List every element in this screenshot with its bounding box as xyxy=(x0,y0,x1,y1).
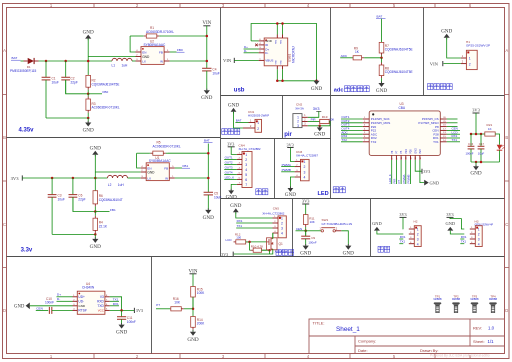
connector H1 GP25-2S2WV-2P xyxy=(461,40,490,70)
svg-text:D: D xyxy=(3,308,6,313)
svg-text:XH-4A_CT22862: XH-4A_CT22862 xyxy=(262,212,284,216)
svg-text:3V3: 3V3 xyxy=(446,212,453,217)
svg-text:HX25003-2WKP: HX25003-2WKP xyxy=(248,113,269,117)
ground GND (below C4) xyxy=(201,89,212,102)
ground GND (usb) xyxy=(311,79,322,92)
ground GND (below C11) xyxy=(116,323,127,336)
svg-text:M2BBB: M2BBB xyxy=(433,298,442,301)
svg-text:PIR: PIR xyxy=(311,118,317,122)
wires U3 bottom pins with labels xyxy=(388,160,411,184)
svg-text:TITLE:: TITLE: xyxy=(313,321,325,326)
net label FB1 (U1 FB pin) xyxy=(175,164,190,168)
svg-text:OUT3: OUT3 xyxy=(225,166,233,170)
svg-text:10uF: 10uF xyxy=(52,80,59,84)
svg-text:LX: LX xyxy=(142,59,146,63)
power flag 3V3 (serial lcd) xyxy=(221,250,269,257)
ground GND (indicator) xyxy=(470,165,481,177)
capacitor C5 10uF xyxy=(204,192,222,210)
resistor R6 CQ03WAJ6104T5E xyxy=(93,191,123,212)
svg-text:GND: GND xyxy=(116,330,127,336)
capacitor C4 10uF xyxy=(202,68,220,91)
capacitor C16 100nF (indicator) xyxy=(466,134,475,162)
resistor R2 CQ03WAJ6104T5E xyxy=(86,75,119,93)
svg-text:LED: LED xyxy=(318,191,329,197)
svg-text:RX1: RX1 xyxy=(400,235,406,239)
resistor R8 CQ03WAJ6104T5E xyxy=(379,58,412,83)
svg-text:2: 2 xyxy=(303,165,305,169)
svg-text:C16: C16 xyxy=(468,142,474,146)
svg-text:CQ03WAJ6104T5E: CQ03WAJ6104T5E xyxy=(92,82,120,86)
svg-text:1: 1 xyxy=(478,228,480,232)
svg-text:BAT: BAT xyxy=(236,119,242,123)
svg-text:TX1: TX1 xyxy=(237,224,243,228)
svg-text:GND: GND xyxy=(142,55,150,59)
svg-text:TX2: TX2 xyxy=(371,140,377,144)
svg-text:3: 3 xyxy=(281,227,283,231)
svg-text:LED_K: LED_K xyxy=(225,176,235,180)
svg-text:GT-TC029B-H025-L1N: GT-TC029B-H025-L1N xyxy=(322,222,353,226)
svg-text:D+: D+ xyxy=(57,293,61,297)
svg-text:RX1: RX1 xyxy=(461,235,467,239)
net label FB0 (U2 FB pin) xyxy=(170,48,185,52)
svg-text:3: 3 xyxy=(478,238,480,242)
svg-text:A: A xyxy=(505,48,508,53)
title block xyxy=(309,319,505,358)
svg-text:VCC: VCC xyxy=(98,309,104,313)
svg-text:10uF: 10uF xyxy=(478,151,485,155)
wire 3V3 rail xyxy=(22,177,107,180)
svg-text:V3: V3 xyxy=(100,295,104,299)
svg-text:TX1: TX1 xyxy=(433,140,439,144)
svg-text:4: 4 xyxy=(245,168,247,172)
svg-text:D-: D- xyxy=(265,51,268,55)
svg-text:CN5: CN5 xyxy=(273,207,279,211)
svg-text:3: 3 xyxy=(303,170,305,174)
svg-text:Sheet_1: Sheet_1 xyxy=(336,326,360,333)
inductor L1 1uH xyxy=(112,58,136,67)
svg-text:1/1: 1/1 xyxy=(488,339,495,344)
svg-text:GND: GND xyxy=(83,128,94,134)
svg-text:P7: P7 xyxy=(397,180,401,184)
svg-text:IN: IN xyxy=(165,177,168,181)
wire U4 V3 to VCC xyxy=(110,297,122,311)
svg-text:1.0: 1.0 xyxy=(488,326,495,331)
net label BAT (4.35v input) xyxy=(11,56,21,60)
switch SW1 GT-TC029B-H025-L1N xyxy=(306,218,352,245)
svg-text:BAT: BAT xyxy=(12,56,18,60)
node FB0 (R2/R3 junction) xyxy=(87,90,109,95)
svg-text:GND: GND xyxy=(203,215,214,221)
svg-text:RXD: RXD xyxy=(97,300,104,304)
svg-text:22pF: 22pF xyxy=(78,198,85,202)
svg-text:D1: D1 xyxy=(27,65,31,69)
svg-text:TX1: TX1 xyxy=(452,138,458,142)
ground GND (H2) xyxy=(372,221,403,234)
svg-text:22pF: 22pF xyxy=(71,80,78,84)
svg-text:GND: GND xyxy=(147,171,155,175)
svg-text:L1: L1 xyxy=(112,64,116,68)
power flag 3V3 (LED block) xyxy=(287,142,295,161)
svg-text:GND: GND xyxy=(228,103,239,109)
mcu U3 CBU xyxy=(363,102,447,160)
svg-text:5: 5 xyxy=(245,173,247,177)
svg-text:XH-7A_CT22882: XH-7A_CT22882 xyxy=(239,147,261,151)
svg-text:M2BBB: M2BBB xyxy=(489,298,498,301)
svg-text:2: 2 xyxy=(417,233,419,237)
ground GND (serial lcd) xyxy=(230,203,272,218)
svg-text:GND: GND xyxy=(78,304,86,308)
svg-text:GND: GND xyxy=(414,148,417,154)
svg-text:3V3: 3V3 xyxy=(136,308,143,313)
ground GND (bottom of 3.3v block) xyxy=(90,237,101,250)
net label TX1 (H3) xyxy=(460,240,466,244)
block label lidianchi xyxy=(222,129,240,135)
svg-text:6: 6 xyxy=(245,178,247,182)
resistor R15 100K xyxy=(191,287,205,309)
net label CEN (U4 RTS#) xyxy=(36,306,48,310)
node FB1 (R6/R4 junction) xyxy=(94,208,116,213)
svg-text:D: D xyxy=(505,308,508,313)
ground GND (adc) xyxy=(376,81,387,94)
svg-text:OUT4: OUT4 xyxy=(225,171,233,175)
ground GND (below R14) xyxy=(187,330,198,343)
ground GND (top of 3.3v block) xyxy=(90,146,101,191)
svg-text:M2BBB: M2BBB xyxy=(452,298,461,301)
net label BAT (3.3v input rail) xyxy=(204,139,213,193)
wire bottom rail to GND (4.35v) xyxy=(46,117,89,123)
svg-text:D-: D- xyxy=(57,297,60,301)
wire pir pin3 to GND xyxy=(308,125,330,128)
op-amp U2 SY8089A1AAC (buck regulator) xyxy=(136,40,170,65)
svg-text:M2BBB: M2BBB xyxy=(470,298,479,301)
svg-text:Sheet:: Sheet: xyxy=(473,339,485,344)
mounting hole TP2 xyxy=(452,294,461,312)
wire indicator bottom rail xyxy=(471,161,500,167)
chip USB1 MICROXNJ connector xyxy=(259,35,296,70)
svg-text:VIN: VIN xyxy=(202,21,211,26)
svg-text:4: 4 xyxy=(478,242,480,246)
svg-text:AC0603DR-0710KL: AC0603DR-0710KL xyxy=(92,106,120,110)
power flag 3V3 (button) xyxy=(302,199,310,215)
svg-text:B: B xyxy=(505,135,508,140)
svg-text:7: 7 xyxy=(245,183,247,187)
svg-text:1: 1 xyxy=(281,217,283,221)
svg-text:3V3: 3V3 xyxy=(227,142,234,147)
net label BAT (battery) xyxy=(235,119,248,123)
svg-text:PWMA: PWMA xyxy=(402,174,406,183)
net label TX1 (H2) xyxy=(399,240,405,244)
svg-text:PMEG3050EP,115: PMEG3050EP,115 xyxy=(10,69,37,73)
svg-text:FB1: FB1 xyxy=(110,208,116,212)
resistor R7 CQ03WAJ6104T5E xyxy=(379,42,412,57)
ground GND (H3) xyxy=(446,221,465,234)
net label ADC + resistor R9 1K xyxy=(340,46,383,60)
svg-text:XH-3A: XH-3A xyxy=(295,106,304,110)
ground GND (pir) xyxy=(314,126,325,138)
wire GND pin branch to U1 xyxy=(95,171,140,173)
svg-text:GND: GND xyxy=(90,146,101,152)
svg-text:GND: GND xyxy=(470,171,481,177)
svg-text:H2: H2 xyxy=(414,219,418,223)
svg-text:RX1: RX1 xyxy=(237,219,243,223)
wire VCC row to 3V3 xyxy=(110,309,134,312)
svg-text:CQ03WAJ6104T: CQ03WAJ6104T xyxy=(99,198,123,202)
ground GND (bottom of 4.35v block) xyxy=(83,121,94,134)
svg-text:3V3: 3V3 xyxy=(11,176,20,181)
svg-text:3V3: 3V3 xyxy=(399,212,406,217)
power flag VIN (divider) xyxy=(189,269,198,286)
wire GND pin branch to U2 xyxy=(88,56,135,58)
svg-text:100: 100 xyxy=(236,236,241,240)
svg-text:C: C xyxy=(3,222,6,227)
svg-text:TX1: TX1 xyxy=(113,297,119,301)
capacitor C11 100nF xyxy=(117,310,136,324)
svg-text:100nF: 100nF xyxy=(127,320,136,324)
block label usb xyxy=(234,88,245,94)
svg-text:10K: 10K xyxy=(310,220,315,224)
svg-text:PWMA: PWMA xyxy=(282,163,291,167)
svg-text:VIN: VIN xyxy=(430,61,439,66)
power flag VIN (usb VBUS) xyxy=(223,58,259,63)
connector CN4 XH-7A_CT22882 xyxy=(237,143,261,187)
node P7 junction xyxy=(192,297,195,317)
ground GND (left of U4) xyxy=(14,303,73,310)
svg-text:CH340N: CH340N xyxy=(82,286,95,290)
resistor R16 10K xyxy=(170,297,193,311)
svg-text:LED_K: LED_K xyxy=(388,174,392,183)
mounting hole TP4 xyxy=(489,294,498,312)
capacitor C9 100nF xyxy=(301,231,317,246)
resistor R11 10K xyxy=(303,215,315,237)
svg-text:TX2: TX2 xyxy=(341,138,347,142)
svg-text:GND: GND xyxy=(201,95,212,101)
block label zhukong xyxy=(333,187,345,193)
net label P7 xyxy=(156,303,170,309)
svg-text:UD-: UD- xyxy=(78,300,84,304)
svg-text:Drawn By:: Drawn By: xyxy=(420,348,438,353)
svg-text:GND: GND xyxy=(441,29,452,35)
net label CEN (button) xyxy=(296,227,306,231)
svg-text:GND: GND xyxy=(446,221,456,226)
svg-text:FB1: FB1 xyxy=(183,164,189,168)
svg-text:3: 3 xyxy=(297,124,299,128)
svg-text:OUT1: OUT1 xyxy=(225,156,233,160)
svg-text:3V3: 3V3 xyxy=(287,142,294,147)
svg-text:R19: R19 xyxy=(322,115,328,119)
power flag 3V3 (indicator) xyxy=(472,108,480,134)
svg-text:1: 1 xyxy=(257,121,259,125)
svg-text:P7: P7 xyxy=(156,303,160,307)
power flag 3V3 (U3 bottom) xyxy=(415,160,430,174)
wire EN feedback loop U1 xyxy=(137,153,141,168)
svg-text:PWMB: PWMB xyxy=(407,174,411,183)
power flag 3V3 (pir) xyxy=(308,107,322,117)
net label RX1 (U4 TXD) xyxy=(110,302,119,306)
mounting hole TP1 xyxy=(433,294,442,312)
svg-text:adc: adc xyxy=(334,87,344,93)
svg-text:GND: GND xyxy=(300,251,311,257)
no-connect X on ID pin xyxy=(255,44,258,47)
wire usb shield top loop xyxy=(251,22,316,81)
block label pir xyxy=(284,132,292,138)
inductor L2 1uH xyxy=(108,175,141,187)
svg-text:AC0603DR-0710KL: AC0603DR-0710KL xyxy=(153,144,181,148)
svg-text:4: 4 xyxy=(281,232,283,236)
capacitor C1 10uF xyxy=(42,61,59,118)
svg-text:100nF: 100nF xyxy=(466,151,474,155)
svg-text:2: 2 xyxy=(469,62,471,66)
ground GND (button right) xyxy=(343,244,354,257)
svg-text:200K: 200K xyxy=(197,322,205,326)
svg-text:UD+: UD+ xyxy=(78,295,85,299)
svg-text:FB0: FB0 xyxy=(103,90,109,94)
svg-text:Powered By JLC EDA professiona: Powered By JLC EDA professional editio xyxy=(430,354,490,358)
net label TX1 (U4 RXD) xyxy=(110,297,119,301)
svg-text:2: 2 xyxy=(478,233,480,237)
capacitor C6 22pF xyxy=(69,178,96,212)
power flag 3V3 (left) xyxy=(11,175,23,181)
block label chuankouping xyxy=(276,250,294,256)
svg-text:OUT2: OUT2 xyxy=(225,161,233,165)
svg-text:1: 1 xyxy=(303,160,305,164)
svg-text:GND: GND xyxy=(90,244,101,250)
svg-text:3V3: 3V3 xyxy=(302,199,310,204)
ground GND (touch) xyxy=(226,189,237,201)
svg-text:RTS#: RTS# xyxy=(78,309,86,313)
svg-text:3V3: 3V3 xyxy=(472,108,480,113)
LED D2 power indicator xyxy=(497,145,505,162)
block label 4.35v xyxy=(19,128,35,134)
net labels U3 right side CEN LCD RX1 TX1 xyxy=(447,127,460,142)
net label RX1 (H3) xyxy=(460,235,467,239)
wire U1 IN to BAT rail xyxy=(175,177,209,179)
net label TX1 (serial lcd) xyxy=(236,224,272,228)
svg-text:2: 2 xyxy=(257,127,259,131)
wire bottom rail to GND (3.3v) xyxy=(52,233,96,239)
svg-text:P24: P24 xyxy=(405,149,408,154)
capacitor C17 10uF (indicator) xyxy=(478,134,485,162)
svg-text:FB: FB xyxy=(159,50,163,54)
svg-text:MICROXNJ: MICROXNJ xyxy=(292,46,296,63)
svg-text:10uF: 10uF xyxy=(58,198,65,202)
svg-text:VIN: VIN xyxy=(223,58,232,63)
svg-text:2: 2 xyxy=(281,222,283,226)
capacitor C2 22pF xyxy=(61,61,88,94)
svg-text:usb: usb xyxy=(234,88,245,94)
svg-text:A: A xyxy=(3,48,6,53)
svg-text:10uF: 10uF xyxy=(212,71,219,75)
ground GND (U3 bottom, right arrow) xyxy=(420,160,439,186)
ground GND (top of 4.35v block) xyxy=(83,29,94,75)
connector H3 GP26-2S2WV-4P xyxy=(470,219,494,246)
net label BAT (adc) xyxy=(376,15,386,43)
svg-text:C9: C9 xyxy=(311,236,315,240)
net label D+ (U4) xyxy=(57,293,73,297)
svg-text:Company:: Company: xyxy=(358,339,376,344)
svg-text:3: 3 xyxy=(417,238,419,242)
block label chuankou xyxy=(378,246,390,252)
net label RX1 (H2) xyxy=(399,235,406,239)
net label LCD + resistor R12 100 xyxy=(226,232,267,244)
net label PIR + resistor R19 10K xyxy=(308,115,335,126)
svg-text:22.1K: 22.1K xyxy=(99,224,108,228)
svg-text:LCD: LCD xyxy=(226,238,233,242)
svg-text:C17: C17 xyxy=(479,142,485,146)
power flag VIN (wireless) xyxy=(430,61,461,66)
ground GND (wireless) xyxy=(441,29,461,58)
svg-text:GND: GND xyxy=(372,221,382,226)
svg-text:IN: IN xyxy=(160,59,163,63)
svg-text:CQ03WAJ6104T5E: CQ03WAJ6104T5E xyxy=(385,70,413,74)
svg-text:GND: GND xyxy=(376,88,387,94)
svg-text:2: 2 xyxy=(245,158,247,162)
svg-text:3V3: 3V3 xyxy=(423,169,430,174)
transistor Q1 AO3401A xyxy=(267,233,288,254)
svg-text:PIR: PIR xyxy=(393,179,397,184)
svg-text:B: B xyxy=(3,135,6,140)
net label D+ (usb) xyxy=(244,45,259,49)
svg-text:1uH: 1uH xyxy=(122,64,129,68)
svg-text:10K: 10K xyxy=(174,301,181,305)
svg-text:4.35v: 4.35v xyxy=(19,128,35,134)
mounting hole TP3 xyxy=(470,294,479,312)
svg-text:GND: GND xyxy=(314,132,325,138)
op-amp U1 SY8089A1AAC (buck regulator) xyxy=(141,156,175,181)
svg-text:BAT: BAT xyxy=(204,139,210,143)
wire LED pin4 to GND xyxy=(290,177,294,188)
svg-text:100nF: 100nF xyxy=(45,301,54,305)
svg-text:3: 3 xyxy=(245,163,247,167)
wire EN feedback loop xyxy=(130,36,135,52)
svg-text:3V3: 3V3 xyxy=(313,107,320,111)
block label chumo xyxy=(256,189,268,195)
svg-text:XH-4A_CT22867: XH-4A_CT22867 xyxy=(296,154,318,158)
net labels OUT1-OUT4 LED_K (touch) xyxy=(224,156,237,180)
connector CN2 XH-3A xyxy=(293,103,308,128)
svg-text:3V3: 3V3 xyxy=(221,252,228,257)
ground GND (below C5) xyxy=(203,208,214,221)
power flag 3V3 (right of U4) xyxy=(134,308,143,313)
svg-text:GND: GND xyxy=(14,305,25,310)
svg-text:GND: GND xyxy=(311,86,322,92)
block label LED xyxy=(318,191,329,197)
net label D- (usb) xyxy=(244,49,259,53)
svg-text:GND: GND xyxy=(226,195,237,201)
wire BAT rail 4.35v xyxy=(21,60,113,62)
capacitor C3 10uF xyxy=(48,178,65,234)
ground GND (below C9) xyxy=(300,244,311,257)
diode D1 PMEG3050EP,115 xyxy=(10,58,39,73)
wire indicator node row xyxy=(470,133,485,136)
ground GND (LED block) xyxy=(285,186,296,198)
svg-text:4: 4 xyxy=(417,242,419,246)
svg-text:LX: LX xyxy=(147,177,151,181)
svg-text:1K: 1K xyxy=(488,127,492,131)
svg-text:AC0603DR-0710KL: AC0603DR-0710KL xyxy=(146,30,174,34)
block label adc dianliang jiance xyxy=(334,86,369,94)
wire usb shield bottom xyxy=(276,69,318,82)
svg-text:L2: L2 xyxy=(108,183,112,187)
svg-text:BAT: BAT xyxy=(377,15,383,19)
svg-text:CEN: CEN xyxy=(296,227,302,231)
svg-text:4: 4 xyxy=(303,176,305,180)
svg-text:CBU: CBU xyxy=(399,106,406,110)
wire touch pin7 to GND xyxy=(231,184,237,190)
svg-text:REV:: REV: xyxy=(473,326,482,331)
svg-text:GND: GND xyxy=(430,180,440,185)
svg-text:C: C xyxy=(505,222,508,227)
chip U4 CH340N xyxy=(73,282,110,314)
